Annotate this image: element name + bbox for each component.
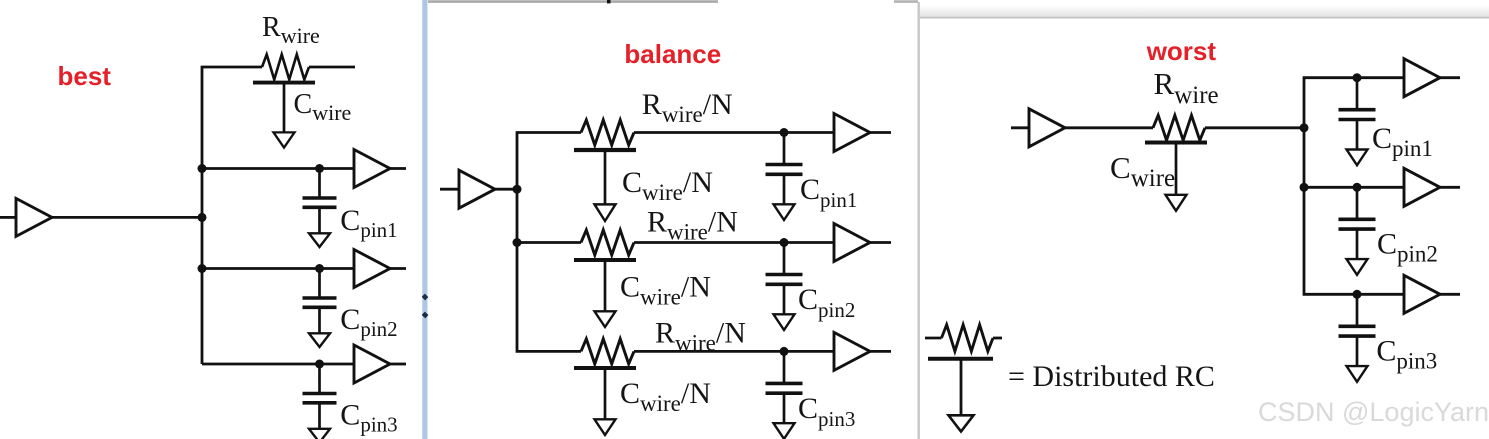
capacitor C_pin3 (303, 364, 337, 439)
wire driver to bus (52, 216, 203, 219)
node driver junction (513, 185, 522, 194)
resistor R_wire/N r3 (581, 339, 634, 364)
right panel top border line (920, 17, 1489, 19)
buffer r1 (834, 114, 870, 152)
svg-text:CSDN @LogicYarn: CSDN @LogicYarn (1258, 397, 1489, 427)
svg-text:worst: worst (1146, 36, 1217, 66)
wire r3 to cap (634, 350, 834, 353)
node row2 cap junction (1353, 183, 1362, 192)
legend resistor zigzag (942, 325, 994, 352)
blue divider line (422, 0, 428, 439)
legend distributed RC symbol : leads (925, 337, 942, 340)
capacitor C_pin2 (303, 269, 337, 348)
capacitor C_pin1 (303, 169, 337, 248)
wire driver input (440, 188, 459, 191)
legend distributed cap plate (928, 357, 993, 361)
node row2 junction at bus (1300, 183, 1309, 192)
capacitor C_wire distributed (253, 83, 315, 148)
resistor R_wire (262, 55, 309, 80)
wire row1 output (1440, 76, 1460, 79)
wire row2 output (1440, 186, 1460, 189)
node r3 cap junction (780, 347, 789, 356)
wire row1 output (390, 167, 406, 170)
node row1 cap junction (1353, 73, 1362, 82)
buffer row2 (354, 250, 390, 288)
wire row2 output (390, 267, 406, 270)
wire driver input (1011, 126, 1029, 129)
driver buffer U3 (1029, 109, 1065, 147)
wire row2 (1304, 186, 1404, 189)
capacitor C_wire/N r2 distributed (574, 260, 636, 327)
wire bus to resistor r2 (517, 241, 581, 244)
resistor R_wire/N r1 (581, 120, 634, 145)
buffer row1 (354, 150, 390, 188)
node row3 cap junction (1353, 290, 1362, 299)
buffer row3 (1404, 275, 1440, 313)
capacitor C_pin1 (766, 133, 803, 221)
driver buffer U2 (459, 170, 495, 208)
wire driver to resistor (1065, 126, 1153, 129)
wire row3 output (390, 363, 406, 366)
stray glyph marks on blue divider (423, 295, 426, 298)
wire row3 output (1440, 293, 1460, 296)
wire r2 to cap (634, 241, 834, 244)
wire row2 (202, 267, 354, 270)
node main junction at bus (1300, 123, 1309, 132)
node row2 junction at bus (198, 264, 207, 273)
svg-text:= Distributed RC: = Distributed RC (1008, 360, 1215, 393)
node driver junction at bus (198, 213, 207, 222)
legend distributed cap stem (960, 359, 963, 415)
node row1 cap junction (315, 164, 324, 173)
resistor R_wire (1153, 115, 1205, 140)
wire R_wire right (309, 66, 355, 69)
right panel left border (918, 2, 920, 439)
capacitor C_pin3 (766, 351, 803, 439)
right panel top gradient band (0, 0, 1, 1)
node row1 junction at bus (198, 164, 207, 173)
wire r3 output (870, 350, 891, 353)
capacitor C_pin3 (1339, 294, 1376, 382)
node row3 cap junction (315, 360, 324, 369)
middle panel top border (428, 0, 718, 3)
capacitor C_pin2 (766, 243, 803, 331)
buffer row1 (1404, 59, 1440, 97)
wire row1 (202, 167, 354, 170)
middle panel top border right segment (894, 0, 918, 3)
svg-text:best: best (58, 61, 112, 91)
node r2 junction at bus (513, 238, 522, 247)
buffer r2 (834, 224, 870, 262)
bus vertical (1304, 78, 1404, 295)
wire r1 output (870, 131, 891, 134)
svg-text:balance: balance (624, 39, 721, 69)
black tick on middle panel top border (607, 0, 611, 3)
node r2 cap junction (780, 238, 789, 247)
wire driver to bus (495, 188, 518, 191)
capacitor C_wire distributed (1145, 143, 1207, 211)
wire row3 (202, 363, 354, 366)
resistor R_wire/N r2 (581, 230, 634, 255)
capacitor C_wire/N r1 distributed (574, 150, 636, 221)
capacitor C_wire/N r3 distributed (574, 368, 636, 435)
wire driver input (0, 216, 16, 219)
buffer r3 (834, 332, 870, 370)
node row2 cap junction (315, 264, 324, 273)
bus vertical (202, 67, 262, 364)
legend distributed cap arrow (949, 415, 974, 431)
buffer row3 (354, 345, 390, 383)
wire r2 output (870, 241, 891, 244)
node r1 cap junction (780, 128, 789, 137)
capacitor C_pin1 (1339, 78, 1376, 166)
driver buffer U1 (16, 198, 52, 236)
capacitor C_pin2 (1339, 187, 1376, 274)
buffer row2 (1404, 168, 1440, 206)
bus vertical (517, 133, 581, 352)
wire r1 to cap (634, 131, 834, 134)
wire resistor to bus (1205, 126, 1305, 129)
